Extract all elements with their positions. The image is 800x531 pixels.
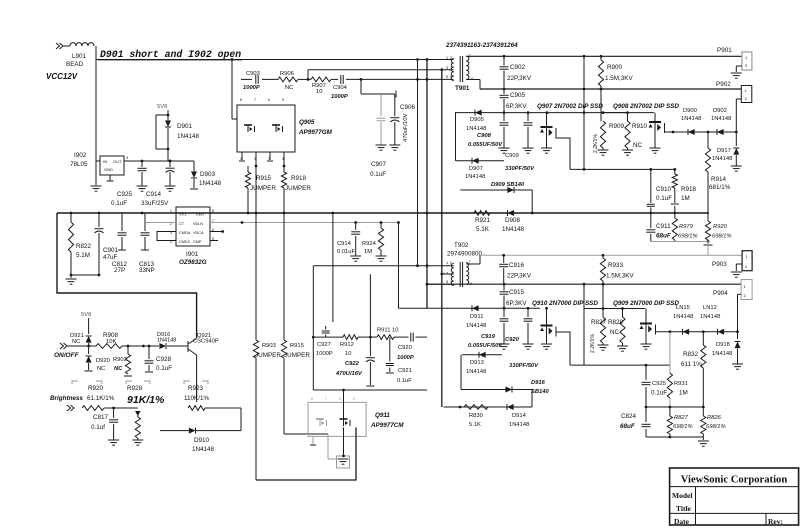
svg-text:7: 7 <box>469 260 471 264</box>
svg-text:7: 7 <box>325 397 327 401</box>
dual MOSFET Q911 AP9977CM <box>308 397 404 436</box>
resistor R918 JUMPER <box>281 166 311 213</box>
svg-text:1000P: 1000P <box>397 355 414 361</box>
wire vertical x427 lower <box>426 266 428 309</box>
transformer T901 <box>446 54 474 92</box>
wire I901 CMDA pin <box>157 232 176 241</box>
svg-text:CMP: CMP <box>193 240 202 244</box>
capacitor C925 0.1uF <box>111 161 148 207</box>
svg-text:NC: NC <box>72 339 80 345</box>
svg-text:7: 7 <box>254 98 256 102</box>
capacitor C919 0.055UF/50V <box>468 308 510 349</box>
svg-text:1N4148: 1N4148 <box>673 314 693 320</box>
svg-text:D902: D902 <box>713 108 727 114</box>
capacitor C914b 0.01uF <box>337 223 361 262</box>
IC I901 OZ9832G <box>170 207 214 266</box>
resistor R908 10K <box>96 332 122 348</box>
svg-text:1N4148: 1N4148 <box>681 116 701 122</box>
diode D916 1N4148 <box>157 332 176 349</box>
diode D911 1N4148 <box>466 305 486 329</box>
svg-text:VDLN: VDLN <box>193 222 203 226</box>
svg-text:Brightness: Brightness <box>50 395 83 402</box>
svg-text:R911 10: R911 10 <box>377 328 399 334</box>
svg-text:6: 6 <box>450 75 452 79</box>
svg-text:68uF: 68uF <box>620 423 635 430</box>
wire x370 mid vertical <box>369 274 371 337</box>
wire top rail to T901 <box>96 58 454 61</box>
svg-text:D903: D903 <box>200 171 216 178</box>
svg-text:R921: R921 <box>475 217 491 224</box>
wire x584 vertical lower <box>583 284 585 365</box>
capacitor C901 47uF <box>95 213 119 275</box>
svg-text:5V8: 5V8 <box>157 104 167 110</box>
capacitor C813 33NP <box>139 213 155 274</box>
wire Q910 drain jog <box>556 327 570 366</box>
resistor R827 <box>590 284 609 353</box>
label Q908 <box>613 103 679 110</box>
capacitor C920b inline <box>394 333 427 361</box>
connector P902 <box>716 81 752 132</box>
svg-text:33uF/25V: 33uF/25V <box>141 200 169 207</box>
resistor R909 <box>593 89 625 155</box>
svg-text:27P: 27P <box>114 267 125 274</box>
svg-text:P904: P904 <box>713 290 728 297</box>
svg-text:XX1: XX1 <box>179 213 186 217</box>
svg-text:5: 5 <box>282 98 284 102</box>
svg-text:5.1K: 5.1K <box>469 422 481 428</box>
svg-text:R924: R924 <box>362 241 377 247</box>
resistor R920 698/1% <box>705 213 731 243</box>
svg-text:R830: R830 <box>469 413 483 419</box>
wire output diode line y332 <box>660 330 739 333</box>
resistor R923 element <box>188 381 205 410</box>
svg-text:Q910 2N7000 DIP SSD: Q910 2N7000 DIP SSD <box>532 300 598 307</box>
diode D917 1N4148 <box>712 132 742 171</box>
svg-text:R909: R909 <box>609 123 625 130</box>
svg-text:0.1uF: 0.1uF <box>111 200 127 207</box>
resistor R921 5.1K <box>474 211 491 233</box>
wire Q911 drain from box bottom <box>342 390 345 457</box>
wire vertical x427 <box>426 60 428 266</box>
svg-text:CT: CT <box>179 222 185 226</box>
label T901 part number <box>445 42 518 49</box>
wire Q907 drain jog <box>556 128 570 169</box>
svg-text:GND: GND <box>104 167 113 172</box>
svg-text:611 1%: 611 1% <box>681 361 702 368</box>
svg-text:R902: R902 <box>113 357 127 363</box>
resistor R911 10 <box>370 328 398 340</box>
svg-text:8: 8 <box>212 209 214 213</box>
svg-text:C925: C925 <box>652 381 666 387</box>
svg-text:1N4148: 1N4148 <box>177 133 200 140</box>
svg-text:1N4148: 1N4148 <box>157 338 176 344</box>
svg-text:R914: R914 <box>711 176 727 183</box>
wire I901 CT pin <box>145 222 176 224</box>
svg-text:1.5M,3KV: 1.5M,3KV <box>606 273 634 280</box>
label R923 110K/1% <box>184 385 209 402</box>
svg-text:1000P: 1000P <box>331 94 348 100</box>
svg-text:D911: D911 <box>470 314 483 320</box>
svg-text:330PF/50V: 330PF/50V <box>509 363 539 369</box>
svg-text:1N4148: 1N4148 <box>192 446 215 453</box>
resistor R918 1M <box>671 169 697 213</box>
diode D903 1N4148 <box>190 161 222 189</box>
svg-text:47uF: 47uF <box>103 254 118 261</box>
resistor R828 NC <box>608 309 628 352</box>
svg-text:8: 8 <box>311 397 313 401</box>
label Q909 <box>613 300 679 307</box>
diode D907 1N4148 <box>456 113 505 180</box>
svg-text:2.2K/1%: 2.2K/1% <box>593 134 599 153</box>
wire output diode line y132 <box>669 131 738 134</box>
resistor R920 element <box>82 406 138 411</box>
wire Q921 emitter down <box>196 355 198 381</box>
svg-text:R933: R933 <box>608 262 624 269</box>
label R928 91K/1% <box>127 385 165 406</box>
svg-text:10: 10 <box>316 89 322 95</box>
diode D900 1N4148 <box>681 108 701 135</box>
ground box <box>337 456 350 468</box>
label Q907 <box>537 103 603 110</box>
wire vertical x442 T901 to bottom <box>440 70 443 407</box>
svg-text:1N4148: 1N4148 <box>711 116 731 122</box>
diode D909 SB140 <box>460 182 532 193</box>
svg-text:C914: C914 <box>146 191 162 198</box>
resistor R914 681/1% <box>705 132 730 213</box>
svg-text:1000P: 1000P <box>243 85 260 91</box>
wire x333 floating <box>332 213 334 322</box>
svg-text:22P,3KV: 22P,3KV <box>507 273 532 280</box>
svg-text:0.055UF/50V: 0.055UF/50V <box>468 142 503 148</box>
svg-text:SB140: SB140 <box>531 389 550 395</box>
wire box left edge <box>312 266 314 390</box>
svg-text:D908: D908 <box>505 217 521 224</box>
svg-text:R912: R912 <box>340 342 354 348</box>
label VCC12V <box>46 72 78 81</box>
svg-text:R918: R918 <box>681 186 697 193</box>
svg-text:1000P: 1000P <box>316 351 333 357</box>
svg-text:5.1K: 5.1K <box>476 226 490 233</box>
svg-text:CMDA: CMDA <box>179 231 191 235</box>
svg-text:698/1%: 698/1% <box>706 424 726 430</box>
svg-text:JUMPER: JUMPER <box>284 352 310 359</box>
svg-text:D907: D907 <box>469 166 483 172</box>
svg-text:ON/OFF: ON/OFF <box>54 352 80 359</box>
resistor R928 element <box>132 411 143 445</box>
label 5V8 (D901) <box>157 104 167 110</box>
svg-text:OZ9832G: OZ9832G <box>179 259 207 266</box>
wire I901 VDLN net <box>210 221 400 224</box>
wire Q905 gate from top rail <box>231 58 237 119</box>
svg-text:DEN: DEN <box>196 213 204 217</box>
wire ON/OFF rail <box>67 345 188 348</box>
svg-text:AP9977CM: AP9977CM <box>370 422 404 429</box>
svg-text:D918: D918 <box>716 342 730 348</box>
svg-text:C906: C906 <box>400 104 416 111</box>
capacitor C922 470U/16V <box>335 337 375 386</box>
svg-text:CMD2: CMD2 <box>179 240 190 244</box>
wire R909/R910 top link <box>602 111 629 114</box>
svg-text:6: 6 <box>268 98 270 102</box>
svg-text:NC: NC <box>114 366 123 372</box>
wire R830 line <box>444 390 533 409</box>
svg-text:C817: C817 <box>93 414 109 421</box>
svg-text:C916: C916 <box>509 262 525 269</box>
diode D920 NC <box>85 346 110 372</box>
capacitor C904 1000P <box>331 75 348 100</box>
svg-text:1N4148: 1N4148 <box>712 156 732 162</box>
svg-text:I902: I902 <box>74 152 87 159</box>
svg-text:10K: 10K <box>106 339 116 345</box>
svg-text:1M: 1M <box>681 195 690 202</box>
wire C906 feed <box>361 79 396 97</box>
label Q910 <box>532 300 598 307</box>
capacitor C817 0.1uf <box>91 408 119 445</box>
diode D908 1N4148 <box>502 210 525 233</box>
wire R907 bypass <box>308 68 454 79</box>
input arrow VCC12V <box>56 43 70 49</box>
wire 78L05 output <box>130 160 194 163</box>
svg-text:1.5M,3KV: 1.5M,3KV <box>605 75 633 82</box>
svg-text:R928: R928 <box>127 385 143 392</box>
wire T902 primary mid <box>442 273 454 275</box>
svg-text:C914: C914 <box>337 241 352 247</box>
ground under VCC12V rail <box>91 186 102 191</box>
capacitor C902 22P,3KV <box>500 56 532 89</box>
svg-text:ViewSonic Corporation: ViewSonic Corporation <box>681 475 788 486</box>
svg-text:Model: Model <box>672 491 692 500</box>
svg-text:R827: R827 <box>591 319 607 326</box>
svg-text:P903: P903 <box>712 261 727 268</box>
capacitor C908 0.055UF/50V <box>468 113 510 154</box>
svg-text:0.1uF: 0.1uF <box>651 390 667 397</box>
wire vdln feed x398 <box>398 223 400 309</box>
capacitor C903 1000P <box>243 71 260 91</box>
svg-text:6P,3KV: 6P,3KV <box>506 103 527 110</box>
svg-text:D900: D900 <box>683 108 697 114</box>
svg-text:BEAD: BEAD <box>66 61 84 68</box>
connector marks brightness row <box>72 381 208 384</box>
svg-text:470U/16V: 470U/16V <box>335 371 363 377</box>
svg-text:R931: R931 <box>674 381 688 387</box>
diode LN12 1N4148 <box>700 305 724 335</box>
svg-text:JUMPER: JUMPER <box>250 185 276 192</box>
title D901 short and I902 open <box>100 49 241 60</box>
svg-text:R908: R908 <box>103 332 119 339</box>
svg-text:6P,3KV: 6P,3KV <box>506 300 527 307</box>
svg-text:2.2K/1%: 2.2K/1% <box>590 334 596 353</box>
svg-text:CSC940P: CSC940P <box>193 339 219 345</box>
wire y407 bottom node <box>645 406 705 409</box>
svg-text:22P,3KV: 22P,3KV <box>507 75 532 82</box>
input arrow ON/OFF <box>54 343 80 359</box>
svg-text:1N4148: 1N4148 <box>466 369 486 375</box>
svg-text:P901: P901 <box>717 47 732 54</box>
svg-text:C920: C920 <box>505 337 520 343</box>
svg-text:3: 3 <box>446 66 448 70</box>
resistor R907 10 <box>311 77 331 95</box>
capacitor C909 330PF/50V <box>505 113 535 172</box>
svg-text:C919: C919 <box>481 334 496 340</box>
MOSFET Q907 <box>540 113 556 154</box>
svg-text:R910: R910 <box>632 123 648 130</box>
svg-text:R906: R906 <box>280 71 294 77</box>
svg-text:1N4148: 1N4148 <box>700 314 720 320</box>
resistor R902 NC <box>113 346 132 376</box>
capacitor C824 68uF <box>620 407 651 437</box>
svg-text:698/1%: 698/1% <box>673 424 693 430</box>
resistor R915 JUMPER <box>245 166 276 213</box>
svg-text:61.1K/1%: 61.1K/1% <box>87 395 115 402</box>
svg-text:470uF/10V: 470uF/10V <box>403 114 409 142</box>
regulator I902 78L05 <box>70 152 130 181</box>
wire R915b to gray box <box>284 434 337 459</box>
capacitor C921 0.1uF <box>386 337 412 384</box>
wire Q909 gate line <box>584 307 645 310</box>
wire Q905 pins <box>239 152 285 167</box>
svg-text:33NP: 33NP <box>139 267 155 274</box>
diode LN15 1N4148 <box>673 305 693 335</box>
wire C911 R979 R920 bottoms <box>651 242 713 256</box>
svg-text:0.1uf: 0.1uf <box>91 424 105 431</box>
title block ViewSonic <box>670 468 799 526</box>
capacitor C927 1000P <box>316 326 333 357</box>
svg-text:330PF/50V: 330PF/50V <box>505 166 535 172</box>
resistor R912 10 <box>340 335 358 357</box>
svg-text:D917: D917 <box>717 148 731 154</box>
svg-text:R920: R920 <box>713 224 728 230</box>
svg-text:L901: L901 <box>72 53 87 60</box>
wire Q905 pin2 down <box>255 166 257 213</box>
wire T902 secondary bottom rail <box>427 283 741 286</box>
capacitor C905 6P,3KV <box>500 89 528 114</box>
wire T902 primary bottom <box>426 283 454 286</box>
wire box bottom <box>313 389 427 392</box>
diode D913 1N4148 <box>462 352 502 375</box>
svg-text:D920: D920 <box>96 358 110 364</box>
svg-text:NC: NC <box>610 329 620 336</box>
ground under R822 <box>66 275 77 284</box>
capacitor C915 6P,3KV <box>500 284 528 309</box>
label R920 Brightness 61.1K/1% <box>50 385 115 402</box>
wire gray x670 <box>669 332 671 373</box>
svg-text:NC: NC <box>285 85 293 91</box>
svg-text:IN: IN <box>103 159 107 164</box>
svg-text:4: 4 <box>450 66 452 70</box>
svg-text:Date: Date <box>674 517 690 526</box>
svg-text:D901: D901 <box>177 123 193 130</box>
svg-text:D909 SB140: D909 SB140 <box>491 182 525 188</box>
svg-text:5.1M: 5.1M <box>76 252 90 259</box>
svg-text:LN15: LN15 <box>676 305 690 311</box>
capacitor C911 68uF <box>646 213 671 242</box>
dual MOSFET Q905 AP9977GM <box>237 98 333 161</box>
svg-text:C911: C911 <box>656 223 671 230</box>
label 5V8 (D921) <box>81 312 91 334</box>
svg-text:C910: C910 <box>656 186 672 193</box>
svg-text:1N4148: 1N4148 <box>712 351 732 357</box>
MOSFET Q909 <box>640 309 661 350</box>
MOSFET Q908 <box>649 113 670 154</box>
svg-text:C925: C925 <box>117 191 133 198</box>
svg-text:R923: R923 <box>188 385 204 392</box>
svg-text:C907: C907 <box>371 161 387 168</box>
capacitor C916 22P,3KV <box>499 255 532 284</box>
svg-text:Rev:: Rev: <box>768 517 783 526</box>
wire VCC12V vertical <box>95 46 97 185</box>
svg-text:Q908 2N7002 DIP SSD: Q908 2N7002 DIP SSD <box>613 103 679 110</box>
svg-text:5V8: 5V8 <box>81 312 91 318</box>
svg-text:R903: R903 <box>262 343 276 349</box>
svg-text:5: 5 <box>446 280 448 284</box>
resistor R903 JUMPER <box>253 213 281 480</box>
wire D909 to rail <box>531 190 534 214</box>
svg-text:C920: C920 <box>398 345 412 351</box>
capacitor C920 330PF/50V <box>505 308 539 369</box>
svg-text:68uF: 68uF <box>656 233 671 240</box>
svg-text:1: 1 <box>446 261 448 265</box>
svg-text:AP9977GM: AP9977GM <box>298 129 333 136</box>
resistor R906 NC <box>278 71 298 91</box>
wire gate drive line <box>241 78 454 81</box>
diode D901 1N4148 <box>165 110 200 149</box>
svg-text:0.1uF: 0.1uF <box>370 171 386 178</box>
wire Q911 source return <box>256 428 356 481</box>
svg-text:R920: R920 <box>88 385 104 392</box>
svg-text:C824: C824 <box>621 413 637 420</box>
capacitor C928 0.1uF <box>145 346 173 372</box>
svg-text:C921: C921 <box>398 368 412 374</box>
svg-text:Q909 2N7000 DIP SSD: Q909 2N7000 DIP SSD <box>613 300 679 307</box>
wire snubber line y308 <box>399 307 541 310</box>
wire Q907 drain line y170 <box>570 168 676 171</box>
svg-text:2: 2 <box>450 261 452 265</box>
wire Q911 left pin <box>310 437 316 446</box>
resistor R822 5.1M <box>68 213 91 275</box>
capacitor C907 0.1uF <box>370 94 387 178</box>
svg-text:R918: R918 <box>291 175 307 182</box>
resistor R900 1.5M,3KV <box>598 56 633 89</box>
wire T902 secondary top jog <box>466 255 480 264</box>
svg-text:VCC12V: VCC12V <box>46 72 78 81</box>
svg-text:1N4148: 1N4148 <box>509 422 529 428</box>
svg-text:Title: Title <box>676 504 692 513</box>
connector P901 <box>717 47 752 78</box>
svg-text:P902: P902 <box>716 81 731 88</box>
svg-text:C902: C902 <box>510 64 526 71</box>
svg-text:1N4148: 1N4148 <box>466 323 486 329</box>
svg-text:R915: R915 <box>256 175 272 182</box>
svg-text:0.1uF: 0.1uF <box>156 365 172 372</box>
svg-text:I901: I901 <box>186 251 199 258</box>
svg-text:D910: D910 <box>194 437 210 444</box>
connector P904 <box>713 280 752 332</box>
svg-text:R832: R832 <box>683 351 699 358</box>
resistor R827b 698/1% <box>667 407 692 437</box>
svg-text:2974900800: 2974900800 <box>447 251 483 258</box>
svg-text:C928: C928 <box>156 356 172 363</box>
input arrow brightness <box>67 405 74 411</box>
resistor R933 1.5M,3KV <box>600 255 634 284</box>
svg-text:D913: D913 <box>470 360 484 366</box>
wire secondary gray bus <box>480 254 741 257</box>
svg-text:R828: R828 <box>608 319 624 326</box>
svg-text:2: 2 <box>450 56 452 60</box>
svg-text:91K/1%: 91K/1% <box>127 394 165 406</box>
label T902 <box>447 242 483 258</box>
svg-text:VDCA: VDCA <box>193 231 204 235</box>
capacitor C812 27P <box>112 213 128 274</box>
